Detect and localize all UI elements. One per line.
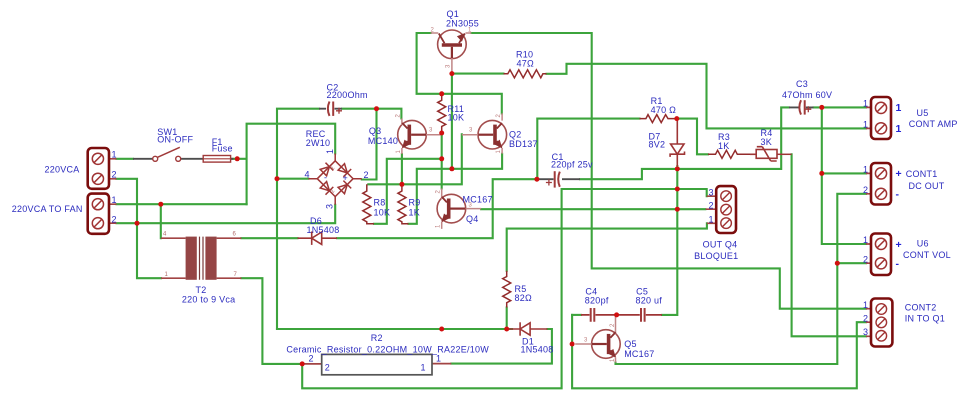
svg-text:Q5: Q5 <box>624 339 637 349</box>
junction fuse output node <box>235 156 240 161</box>
junction C4 / C5 / Q5 collector <box>614 312 619 317</box>
diode D6 <box>298 232 338 245</box>
transistor Q4 <box>437 189 481 229</box>
wire CONT1 pin1 <box>822 172 866 174</box>
junction REC pin4 / C2 minus <box>275 176 280 181</box>
wire C1 dot riser and R1 left <box>537 119 639 180</box>
wire C2 plus to REC pin2 <box>362 109 377 180</box>
svg-text:1K: 1K <box>409 208 421 218</box>
svg-text:+: + <box>896 168 902 180</box>
wire bottom bus R2 pin2 to Y189 line and C3 left riser <box>302 189 707 388</box>
transformer T2 <box>161 232 241 280</box>
transistor Q5 <box>575 315 620 363</box>
resistor R2 ceramic box <box>302 354 451 374</box>
resistor R8 <box>363 184 374 224</box>
wire Q1 base to R10 <box>452 73 504 75</box>
svg-text:1: 1 <box>421 363 426 373</box>
junction R5 bottom / minus rail <box>504 327 509 332</box>
junction Q5 base / C4 left <box>570 342 575 347</box>
svg-text:47Ω: 47Ω <box>517 58 535 68</box>
wire Q5 emitter to CONT1 pin2 <box>616 194 867 364</box>
svg-text:3: 3 <box>863 327 868 337</box>
svg-text:+: + <box>343 173 349 183</box>
wire R5 bottom <box>506 308 508 330</box>
svg-text:220VCA: 220VCA <box>45 164 80 174</box>
svg-text:-: - <box>896 258 900 270</box>
wire D7 cathode net vertical to C5 right <box>662 166 677 315</box>
svg-text:1: 1 <box>863 235 868 245</box>
wire C1 right to D7 net <box>580 107 789 179</box>
svg-text:2: 2 <box>863 185 868 195</box>
svg-text:8V2: 8V2 <box>649 139 666 149</box>
wire C4 left riser and bottom right bus to CONT2 pin2 <box>572 315 866 388</box>
junction wire A / Q4 collector <box>439 156 444 161</box>
svg-text:2N3055: 2N3055 <box>446 18 479 28</box>
wire 220VCA pin1 to switch <box>117 158 134 160</box>
svg-text:220VCA TO FAN: 220VCA TO FAN <box>12 204 83 214</box>
svg-text:2: 2 <box>863 255 868 265</box>
junction R1 right / D7 anode <box>674 116 679 121</box>
svg-text:Fuse: Fuse <box>212 144 233 154</box>
wire R1 right to R3 left <box>677 119 708 155</box>
junction R11 top <box>439 91 444 96</box>
diode D1 <box>507 322 548 335</box>
junction Q4 emitter / minus rail <box>439 327 444 332</box>
wire C2 right to Q3 collector <box>342 109 401 119</box>
svg-text:3: 3 <box>325 204 335 209</box>
wire R10 to U5 pin2 <box>547 64 867 129</box>
capacitor C1 <box>537 171 580 187</box>
connector CONT2 IN TO Q1 <box>866 299 892 347</box>
wire C2 left vertical REC minus rail <box>277 109 319 329</box>
svg-text:MC140: MC140 <box>368 136 398 146</box>
svg-text:220 to 9 Vca: 220 to 9 Vca <box>182 294 236 304</box>
svg-text:2W10: 2W10 <box>306 138 331 148</box>
junction D7 net / OUT Q4 pin3 wire <box>675 187 680 192</box>
resistor R10 <box>504 70 547 78</box>
capacitor C4 <box>581 308 616 322</box>
connector CONT1 DC OUT <box>866 163 891 205</box>
wire base bus R8 R9 to Q2 base <box>368 134 462 184</box>
svg-text:1K: 1K <box>718 141 730 151</box>
transistor Q1 <box>431 30 472 74</box>
junction fan line / T2 pin4 <box>158 202 163 207</box>
wire C3 net vertical to U6 pin1 <box>822 107 866 244</box>
svg-text:-: - <box>896 189 900 201</box>
wire D1 to R2 pin1 <box>451 329 552 364</box>
resistor R9 <box>398 184 409 224</box>
resistor R11 <box>438 94 446 133</box>
svg-text:2: 2 <box>309 354 314 364</box>
svg-text:2200Ohm: 2200Ohm <box>327 90 368 100</box>
junction Q1 base net / Q2 emitter wire <box>449 166 454 171</box>
wire Q1 right pin to CONT2 pin1 <box>471 33 866 309</box>
svg-text:1N5408: 1N5408 <box>521 345 554 355</box>
wire R9 bottom to Q2 emitter <box>409 154 503 224</box>
wire R11 Q3 collector to Q4 collector <box>441 133 443 189</box>
svg-text:IN TO Q1: IN TO Q1 <box>905 314 945 324</box>
svg-text:CONT1: CONT1 <box>906 169 938 179</box>
svg-text:∿: ∿ <box>330 166 335 172</box>
wire fuse output to REC AC1 riser <box>231 124 335 205</box>
connector U6 CONT VOL <box>866 234 891 276</box>
svg-text:2: 2 <box>325 363 330 373</box>
wire 220VCA pin2 to T2 pin1 <box>117 179 162 278</box>
svg-text:3: 3 <box>709 187 714 197</box>
svg-text:BLOQUE1: BLOQUE1 <box>694 251 738 261</box>
capacitor C2 <box>319 102 342 116</box>
capacitor C5 <box>618 308 662 322</box>
wire D6 to C1 left <box>337 179 537 238</box>
svg-text:10K: 10K <box>374 208 391 218</box>
svg-text:BD137: BD137 <box>509 139 538 149</box>
svg-text:470 Ω: 470 Ω <box>651 105 677 115</box>
svg-text:Ceramic_Resistor_0.22OHM_10W_R: Ceramic_Resistor_0.22OHM_10W_RA22E/10W <box>286 345 489 355</box>
svg-text:OUT Q4: OUT Q4 <box>703 239 738 249</box>
svg-text:3K: 3K <box>761 137 773 147</box>
bridge rectifier REC 2W10 <box>308 154 361 205</box>
svg-text:CONT2: CONT2 <box>905 302 937 312</box>
wire fan pin1 line <box>117 203 247 205</box>
svg-text:2: 2 <box>364 170 369 180</box>
wire minus rail to D1 <box>277 328 512 330</box>
switch SW1 <box>133 147 199 161</box>
wire R4 right riser to CONT2 pin3 <box>792 154 866 336</box>
svg-text:1: 1 <box>896 123 902 135</box>
junction CONT1 pin1 node <box>819 171 824 176</box>
wire T2 pin7 to R2 pin2 <box>241 278 302 364</box>
svg-text:Q4: Q4 <box>466 214 479 224</box>
svg-text:C3: C3 <box>796 79 808 89</box>
junction R2 pin2 / T2 pin7 <box>300 361 305 366</box>
svg-text:-: - <box>324 173 327 183</box>
wire Q1 base vertical <box>451 74 453 169</box>
fuse F1 <box>199 156 234 163</box>
svg-text:+: + <box>896 239 902 251</box>
svg-text:220pf 25v: 220pf 25v <box>551 159 593 169</box>
junction neutral net <box>135 221 140 226</box>
svg-text:CONT VOL: CONT VOL <box>903 250 951 260</box>
junction C3 right / U5 pin1 <box>819 105 824 110</box>
wire Q3 emitter to R9 top <box>401 154 403 184</box>
junction Q1 base / R10 <box>449 71 454 76</box>
svg-text:82Ω: 82Ω <box>515 293 533 303</box>
junction D7 cathode / C1 right net <box>675 166 680 171</box>
svg-text:MC167: MC167 <box>463 195 493 205</box>
svg-text:1: 1 <box>436 353 441 363</box>
wire REC pin4 stub join <box>277 178 308 180</box>
svg-text:2: 2 <box>709 201 714 211</box>
svg-text:1: 1 <box>863 165 868 175</box>
zener diode D7 <box>670 119 684 166</box>
junction C2 plus / REC pin2 <box>374 106 379 111</box>
svg-text:R2: R2 <box>371 333 383 343</box>
svg-text:10K: 10K <box>448 113 465 123</box>
connector OUT Q4 BLOQUE1 <box>706 186 736 233</box>
resistor R1 <box>640 115 677 123</box>
wire U6 pin2 <box>837 262 866 264</box>
junction Q3 emitter / R9 top / base bus <box>399 182 404 187</box>
svg-text:47Ohm 60V: 47Ohm 60V <box>782 90 832 100</box>
svg-text:820pf: 820pf <box>585 296 609 306</box>
svg-text:MC167: MC167 <box>624 349 654 359</box>
wire C3 right to U5 pin1 <box>814 106 867 108</box>
capacitor C3 <box>789 100 814 114</box>
transistor Q3 <box>398 119 442 155</box>
svg-text:U5: U5 <box>917 108 929 118</box>
wire Q1 left pin to Q2 collector <box>417 33 502 114</box>
svg-text:CONT AMP: CONT AMP <box>909 119 958 129</box>
wire R8 bottom to wire A junction <box>374 159 442 224</box>
svg-text:2: 2 <box>112 170 117 180</box>
svg-text:820 uf: 820 uf <box>636 296 663 306</box>
connector 220VCA TO FAN (X2) <box>88 194 117 234</box>
svg-text:1: 1 <box>112 195 117 205</box>
wire C4 C5 row <box>572 314 581 316</box>
resistor R5 <box>503 271 511 308</box>
connector U5 CONT AMP <box>866 97 891 139</box>
svg-text:2: 2 <box>112 214 117 224</box>
svg-text:ON-OFF: ON-OFF <box>157 135 193 145</box>
svg-text:2: 2 <box>863 313 868 323</box>
wire Q4 base to OUT pin2 <box>481 208 705 210</box>
transistor Q2 <box>462 113 507 154</box>
svg-text:1: 1 <box>896 102 902 114</box>
junction U6 pin2 node <box>835 261 840 266</box>
wire T2 pin6 to D6 <box>241 237 297 239</box>
svg-text:1: 1 <box>112 150 117 160</box>
svg-text:1N5408: 1N5408 <box>307 225 340 235</box>
svg-text:U6: U6 <box>917 239 929 249</box>
wire riser to T2 pin4 <box>160 204 162 238</box>
wire H3 R5 top to OUT pin1 <box>507 223 707 270</box>
connector 220VCA (X1) <box>88 148 117 189</box>
svg-text:1: 1 <box>709 214 714 224</box>
resistor R3 <box>708 150 756 158</box>
svg-text:Q3: Q3 <box>369 126 382 136</box>
svg-text:1: 1 <box>863 120 868 130</box>
junction C1 left / R1 riser <box>534 177 539 182</box>
svg-text:1: 1 <box>863 99 868 109</box>
junction D7 net / Q4 base wire <box>675 207 680 212</box>
junction Q3 collector / R11 <box>439 131 444 136</box>
svg-text:1: 1 <box>325 149 335 154</box>
svg-text:∿: ∿ <box>330 189 335 195</box>
svg-text:1: 1 <box>863 300 868 310</box>
svg-text:DC OUT: DC OUT <box>909 181 945 191</box>
wire fan pin2 bus to REC AC2 <box>117 205 336 223</box>
svg-text:Q2: Q2 <box>509 129 522 139</box>
svg-text:4: 4 <box>305 170 310 180</box>
svg-text:R9: R9 <box>409 198 421 208</box>
varistor R4 <box>750 147 792 161</box>
svg-text:R8: R8 <box>374 198 386 208</box>
